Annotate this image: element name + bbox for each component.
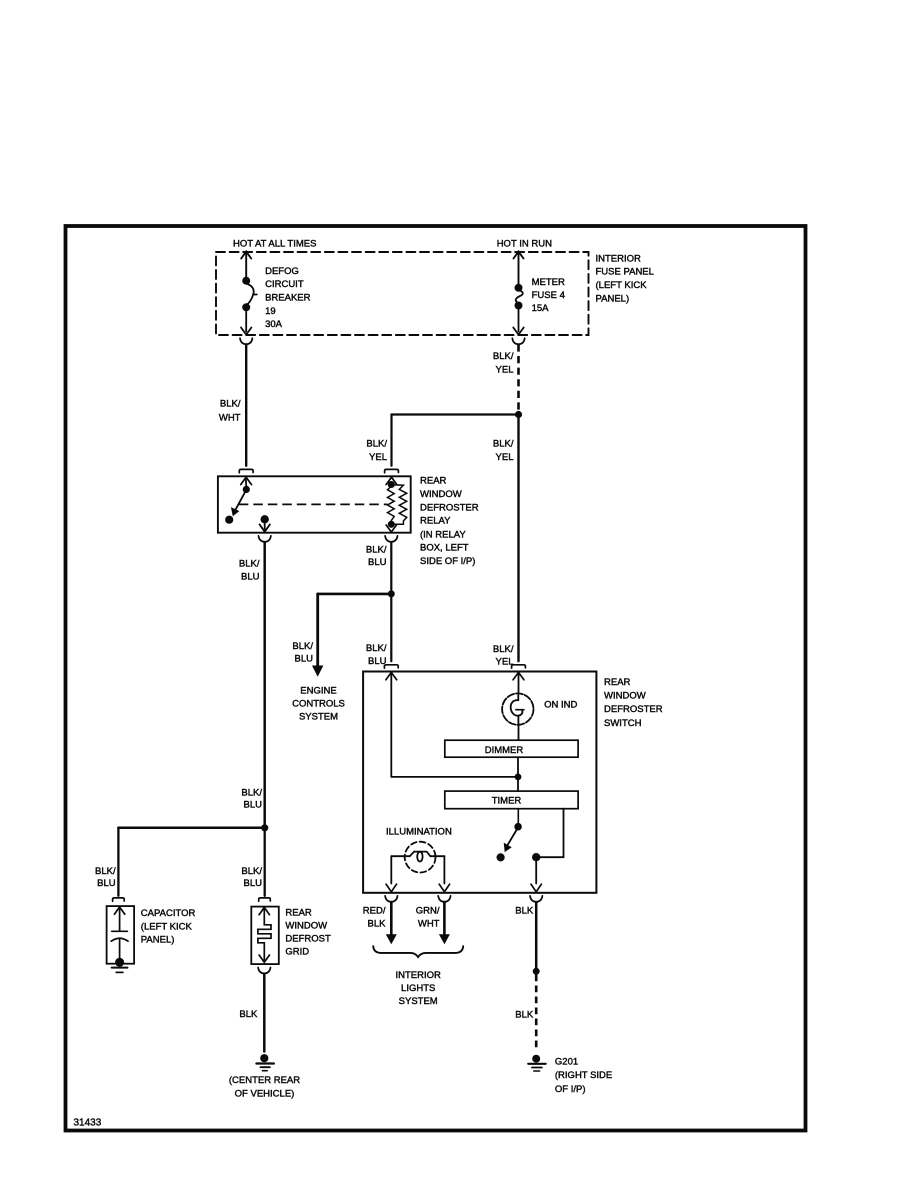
arrow to engine controls system — [312, 666, 323, 677]
svg-text:RED/: RED/ — [363, 906, 386, 917]
connector cup above capacitor — [113, 898, 125, 901]
illumination output wires with exit arrows — [386, 856, 450, 892]
node HOT AT ALL TIMES feed arrow — [241, 252, 251, 280]
svg-text:ENGINE: ENGINE — [300, 686, 336, 697]
svg-text:BLK/: BLK/ — [493, 351, 514, 362]
wire BLK/WHT breaker to relay — [245, 344, 247, 465]
svg-text:DEFOG: DEFOG — [265, 266, 299, 277]
svg-text:CIRCUIT: CIRCUIT — [265, 279, 304, 290]
wire dimmer to timer — [517, 757, 519, 791]
relay switch arm — [226, 477, 249, 523]
svg-text:BLK/: BLK/ — [292, 641, 313, 652]
relay internal dashed link — [239, 503, 388, 505]
connector cup below grid box — [258, 968, 270, 974]
svg-text:TIMER: TIMER — [492, 796, 522, 807]
svg-text:BLK/: BLK/ — [366, 544, 387, 555]
circuit breaker (DEFOG CIRCUIT BREAKER 19 30A) — [241, 278, 257, 335]
capacitor symbol — [111, 907, 128, 966]
wire RED/BLK to interior lights — [390, 902, 393, 935]
svg-text:OF I/P): OF I/P) — [555, 1084, 586, 1095]
connector cups below relay — [259, 536, 271, 542]
timer output wire — [531, 809, 564, 892]
wire branch to capacitor — [118, 827, 264, 830]
svg-text:19: 19 — [265, 306, 276, 317]
svg-text:BLU: BLU — [244, 878, 263, 889]
svg-text:DEFROSTER: DEFROSTER — [604, 704, 663, 715]
node HOT IN RUN feed arrow — [514, 252, 524, 286]
wire GRN/WHT to interior lights — [443, 902, 446, 935]
wire BLK/BLU relay switch down (long left run) — [263, 542, 266, 824]
svg-text:BLK: BLK — [515, 1009, 534, 1020]
svg-text:WINDOW: WINDOW — [285, 921, 327, 932]
wire inside: main to lamp — [518, 672, 520, 693]
svg-text:FUSE 4: FUSE 4 — [532, 290, 565, 301]
svg-text:(LEFT KICK: (LEFT KICK — [141, 921, 193, 932]
svg-text:BLU: BLU — [97, 878, 116, 889]
svg-text:FUSE PANEL: FUSE PANEL — [596, 267, 654, 278]
svg-text:INTERIOR: INTERIOR — [596, 253, 642, 264]
svg-text:GRN/: GRN/ — [416, 906, 440, 917]
fuse METER FUSE 4 15A — [513, 285, 523, 335]
svg-text:BOX, LEFT: BOX, LEFT — [420, 543, 469, 554]
svg-text:(LEFT KICK: (LEFT KICK — [596, 280, 648, 291]
capacitor box — [107, 906, 135, 964]
svg-text:DEFROSTER: DEFROSTER — [420, 502, 479, 513]
svg-text:HOT AT ALL TIMES: HOT AT ALL TIMES — [233, 239, 316, 250]
wire branch to engine controls — [318, 593, 392, 596]
svg-text:SWITCH: SWITCH — [604, 718, 642, 729]
svg-text:HOT IN RUN: HOT IN RUN — [497, 239, 552, 250]
TIMER box — [445, 791, 578, 809]
svg-text:WHT: WHT — [219, 412, 241, 423]
svg-text:BLK/: BLK/ — [220, 398, 241, 409]
svg-text:BLU: BLU — [244, 800, 263, 811]
connector cups entering switch box — [384, 665, 398, 668]
svg-text:30A: 30A — [265, 319, 283, 330]
svg-text:DEFROST: DEFROST — [285, 934, 331, 945]
svg-text:YEL: YEL — [496, 657, 514, 668]
svg-text:GRID: GRID — [285, 947, 309, 958]
svg-text:(CENTER REAR: (CENTER REAR — [229, 1075, 300, 1086]
connector cup below breaker — [240, 338, 252, 344]
wire BLK/BLU relay coil down — [390, 542, 392, 591]
lamp ILLUMINATION — [391, 842, 444, 873]
svg-text:BLU: BLU — [295, 654, 314, 665]
svg-text:YEL: YEL — [369, 452, 387, 463]
ground center rear of vehicle — [256, 1054, 274, 1071]
svg-text:BLK/: BLK/ — [366, 439, 387, 450]
wire BLK dashed to G201 — [535, 975, 538, 1052]
DIMMER box — [445, 740, 578, 757]
svg-text:ON IND: ON IND — [544, 700, 577, 711]
wire BLK/YEL junction down to switch — [517, 415, 519, 662]
svg-text:WHT: WHT — [418, 918, 440, 929]
defrost grid box — [251, 907, 278, 965]
node junction BLK/BLU coil — [388, 590, 395, 597]
svg-text:BLU: BLU — [368, 557, 387, 568]
wire BLK/YEL dashed from fuse — [517, 344, 520, 411]
switch box (REAR WINDOW DEFROSTER SWITCH) — [363, 672, 596, 893]
node junction dimmer/timer — [515, 774, 522, 781]
brace interior lights system — [373, 946, 463, 957]
interior fuse panel dashed box — [216, 252, 589, 335]
svg-text:BLK/: BLK/ — [493, 644, 514, 655]
relay entry arrows — [241, 477, 252, 484]
svg-text:BLK/: BLK/ — [241, 787, 262, 798]
wire junction down to grid — [264, 828, 266, 896]
svg-text:BLK/: BLK/ — [241, 866, 262, 877]
connector cup above grid — [259, 898, 271, 901]
svg-text:SYSTEM: SYSTEM — [399, 996, 438, 1007]
wire lamp to dimmer — [518, 725, 520, 740]
wire coil junction down to switch box — [390, 594, 392, 661]
svg-text:BLK/: BLK/ — [366, 643, 387, 654]
svg-text:YEL: YEL — [496, 365, 514, 376]
wire BLK grid to ground — [263, 974, 266, 1052]
node junction BLK/BLU left — [261, 824, 268, 831]
defrost grid symbol — [258, 907, 271, 962]
svg-text:BLK/: BLK/ — [95, 866, 116, 877]
relay switch output terminal — [260, 516, 270, 532]
svg-text:ILLUMINATION: ILLUMINATION — [386, 827, 452, 838]
ground G201 — [528, 1055, 546, 1071]
svg-text:(IN RELAY: (IN RELAY — [420, 529, 466, 540]
svg-text:SIDE OF I/P): SIDE OF I/P) — [420, 556, 475, 567]
svg-text:BLU: BLU — [241, 571, 260, 582]
svg-text:CAPACITOR: CAPACITOR — [141, 908, 196, 919]
svg-text:BLK/: BLK/ — [493, 439, 514, 450]
svg-text:BREAKER: BREAKER — [265, 293, 311, 304]
border frame — [66, 226, 806, 1131]
svg-text:RELAY: RELAY — [420, 516, 451, 527]
svg-text:YEL: YEL — [496, 452, 514, 463]
svg-text:BLK: BLK — [239, 1009, 258, 1020]
wire junction to relay coil branch — [392, 413, 519, 415]
svg-text:REAR: REAR — [285, 908, 312, 919]
node splice BLK — [533, 968, 540, 975]
ground below capacitor — [112, 968, 128, 973]
svg-text:BLK/: BLK/ — [239, 558, 260, 569]
svg-text:WINDOW: WINDOW — [604, 690, 646, 701]
svg-text:REAR: REAR — [604, 677, 631, 688]
wire inside: left branch to dimmer junction — [390, 672, 392, 777]
switch box entry arrows — [386, 672, 397, 679]
svg-text:SYSTEM: SYSTEM — [299, 712, 338, 723]
svg-text:OF VEHICLE): OF VEHICLE) — [235, 1089, 295, 1100]
relay box (REAR WINDOW DEFROSTER RELAY) — [218, 476, 411, 532]
svg-text:PANEL): PANEL) — [141, 935, 175, 946]
svg-text:DIMMER: DIMMER — [485, 745, 524, 756]
svg-text:BLK: BLK — [515, 906, 534, 917]
svg-text:LIGHTS: LIGHTS — [401, 983, 435, 994]
node junction BLK/YEL — [515, 411, 522, 418]
svg-text:G201: G201 — [555, 1056, 578, 1067]
svg-text:BLU: BLU — [368, 656, 387, 667]
svg-text:CONTROLS: CONTROLS — [292, 699, 345, 710]
connector cups below switch box — [385, 896, 397, 902]
wire BLK switch to ground — [535, 902, 538, 968]
svg-text:INTERIOR: INTERIOR — [396, 970, 442, 981]
lamp ON IND — [502, 693, 533, 724]
svg-text:WINDOW: WINDOW — [420, 489, 462, 500]
svg-text:METER: METER — [532, 277, 565, 288]
svg-text:PANEL): PANEL) — [596, 294, 630, 305]
connector cup below fuse — [512, 338, 524, 344]
svg-text:REAR: REAR — [420, 476, 447, 487]
svg-text:(RIGHT SIDE: (RIGHT SIDE — [555, 1070, 612, 1081]
connector cups entering relay — [239, 469, 253, 472]
svg-text:31433: 31433 — [74, 1118, 102, 1129]
svg-text:15A: 15A — [532, 303, 550, 314]
timer switch — [497, 809, 521, 861]
svg-text:BLK: BLK — [368, 918, 387, 929]
relay coil — [386, 482, 407, 532]
